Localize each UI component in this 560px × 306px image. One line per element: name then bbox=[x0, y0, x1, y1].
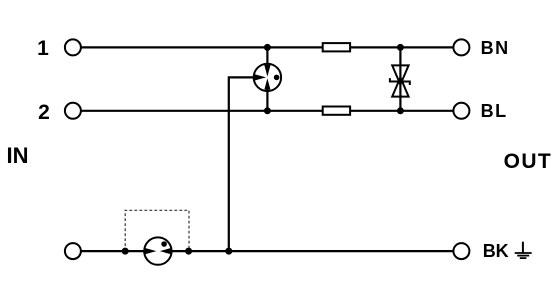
terminal 1 left bbox=[65, 39, 81, 55]
wire vertical through gas discharge tube F1 bbox=[266, 47, 268, 110]
svg-text:OUT: OUT bbox=[504, 150, 553, 173]
wire third electrode arm of F1 down to bottom line bbox=[229, 77, 253, 251]
wire line 2 (terminal 2 to BL) bbox=[82, 110, 453, 112]
svg-text:BL: BL bbox=[481, 101, 508, 121]
resistor R2 on line 2 bbox=[323, 107, 350, 115]
junction node line1/V1 bbox=[397, 44, 404, 51]
svg-text:1: 1 bbox=[37, 37, 49, 60]
svg-text:BK: BK bbox=[483, 241, 509, 261]
suppressor diode V1 (bidirectional TVS) bbox=[390, 65, 410, 96]
terminal 2 left bbox=[65, 103, 81, 119]
gas discharge tube F1 (3-electrode) bbox=[253, 63, 281, 92]
terminal BL right bbox=[453, 103, 469, 119]
junction node dashed-box right bbox=[185, 248, 192, 255]
junction node line2/V1 bbox=[397, 107, 404, 114]
svg-text:IN: IN bbox=[7, 143, 29, 168]
junction node line2/F1 bbox=[264, 107, 271, 114]
junction node bottom/F1 arm bbox=[225, 248, 232, 255]
wire line 3 (bottom, to BK) bbox=[82, 250, 453, 252]
gas discharge tube F2 (2-electrode, bottom) bbox=[144, 237, 173, 264]
junction node dashed-box left bbox=[122, 248, 129, 255]
svg-text:2: 2 bbox=[38, 101, 50, 124]
dashed box around gas discharge tube F2 bbox=[125, 210, 189, 251]
wire line 1 (top, terminal 1 to BN) bbox=[82, 46, 453, 48]
junction node line1/F1 bbox=[264, 44, 271, 51]
terminal BN right bbox=[453, 39, 469, 55]
terminal BK right bbox=[453, 243, 469, 259]
wire vertical through suppressor diode V1 bbox=[399, 47, 401, 110]
resistor R1 on line 1 bbox=[323, 43, 350, 51]
terminal bottom left bbox=[65, 243, 81, 259]
ground symbol bbox=[515, 242, 532, 258]
svg-text:BN: BN bbox=[481, 38, 510, 58]
